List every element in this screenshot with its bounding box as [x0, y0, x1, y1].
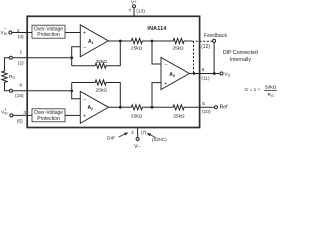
svg-text:−: − [4, 26, 7, 31]
dashed wire feedback to pin [192, 40, 213, 42]
terminal pin1 [9, 56, 12, 59]
resistor 25k A2 feedback [72, 80, 121, 107]
node A2 inverting [70, 89, 73, 92]
op-amp A3 [161, 57, 189, 89]
wire node to A1- [72, 47, 81, 66]
wire A3 output [189, 73, 220, 75]
svg-text:25kΩ: 25kΩ [96, 88, 108, 94]
svg-text:DIP Connected: DIP Connected [223, 50, 258, 56]
svg-text:DIP: DIP [107, 136, 115, 142]
resistor 25k A1 feedback [72, 41, 121, 68]
svg-text:(12): (12) [201, 44, 210, 50]
svg-text:25kΩ: 25kΩ [173, 113, 185, 119]
wire pin3 input [13, 114, 32, 116]
terminal Vin+ [10, 114, 13, 117]
svg-text:+: + [164, 81, 167, 87]
wire node to A3- [152, 41, 161, 64]
svg-text:Internally: Internally [230, 57, 251, 63]
IC boundary box INA114 [27, 16, 199, 127]
svg-text:7: 7 [129, 8, 132, 14]
svg-text:(7): (7) [141, 130, 147, 136]
wire pin2 input [12, 32, 32, 34]
svg-text:G = 1 +: G = 1 + [244, 87, 260, 93]
svg-text:(2): (2) [18, 60, 24, 66]
svg-text:Protection: Protection [37, 32, 60, 38]
label SOIC with arrow [147, 133, 167, 143]
resistor 25k top-left [131, 38, 152, 51]
wire OV2 to A2+ [65, 114, 80, 116]
svg-text:(13): (13) [136, 9, 145, 15]
wire node to A3+ [152, 83, 161, 108]
terminal V- supply [136, 138, 139, 141]
svg-text:3: 3 [23, 110, 26, 116]
terminal pin8 [9, 89, 12, 92]
dashed wire feedback drop [193, 41, 195, 73]
terminal V+ supply [133, 5, 136, 8]
svg-text:(10): (10) [202, 109, 211, 115]
svg-text:(4): (4) [18, 34, 24, 40]
svg-text:−: − [164, 62, 167, 68]
wire A2 output row [109, 106, 132, 108]
svg-text:Protection: Protection [37, 116, 60, 122]
svg-text:(11): (11) [201, 75, 210, 81]
svg-text:25kΩ: 25kΩ [96, 59, 108, 65]
svg-text:V−: V− [134, 144, 140, 150]
svg-text:+: + [83, 31, 86, 37]
resistor RG external [2, 58, 16, 91]
svg-text:(SOIC): (SOIC) [152, 137, 167, 143]
svg-text:VIN: VIN [1, 30, 8, 36]
wire pin1 to node [12, 57, 71, 59]
gain formula G = 1 + 50k/RG [244, 85, 277, 99]
svg-text:Ref: Ref [220, 104, 229, 110]
op-amp A1 [80, 25, 108, 57]
svg-text:2: 2 [17, 28, 20, 34]
node A2 feedback tap [119, 106, 122, 109]
node A3 non-inverting tap [151, 106, 154, 109]
svg-text:25kΩ: 25kΩ [131, 113, 143, 119]
note DIP connected internally [223, 50, 258, 63]
terminal Vin- [9, 31, 12, 34]
svg-text:50kΩ: 50kΩ [265, 85, 277, 91]
svg-text:25kΩ: 25kΩ [172, 46, 184, 52]
resistor 25k bottom-right [152, 105, 215, 120]
wire V+ stem [133, 8, 135, 17]
node feedback join [213, 72, 216, 75]
resistor 25k top-right [152, 38, 192, 51]
op-amp A2 [80, 91, 108, 123]
node dashed drop join [193, 72, 196, 75]
wire node to A2- [72, 83, 81, 99]
wire A1 output row [108, 40, 131, 42]
node A3 inverting tap [151, 40, 154, 43]
svg-text:4: 4 [131, 130, 134, 136]
svg-text:(5): (5) [17, 119, 23, 125]
svg-text:Feedback: Feedback [204, 33, 228, 39]
resistor 25k bottom-left [131, 105, 152, 120]
node A1 inverting [70, 56, 73, 59]
svg-text:25kΩ: 25kΩ [131, 46, 143, 52]
wire V- stem [137, 128, 139, 138]
svg-text:6: 6 [202, 67, 205, 73]
wire pin8 to node [12, 90, 71, 92]
wire feedback external drop [213, 42, 215, 73]
terminal Feedback [213, 39, 216, 42]
svg-text:5: 5 [202, 101, 205, 107]
svg-text:+: + [83, 113, 86, 119]
node A1 feedback tap [119, 40, 122, 43]
label DIP with arrow [107, 132, 128, 141]
terminal Vo [220, 72, 223, 75]
wire OV1 to A1+ [65, 32, 80, 34]
terminal Ref [215, 106, 218, 109]
svg-text:INA114: INA114 [147, 26, 166, 32]
over-voltage protection box 2 [32, 109, 65, 122]
svg-text:V+: V+ [131, 0, 137, 5]
svg-text:(15): (15) [15, 93, 24, 99]
svg-text:1: 1 [20, 50, 23, 56]
svg-text:−: − [83, 97, 86, 103]
over-voltage protection box 1 [32, 25, 65, 38]
svg-text:−: − [83, 45, 86, 51]
svg-text:8: 8 [19, 83, 22, 89]
